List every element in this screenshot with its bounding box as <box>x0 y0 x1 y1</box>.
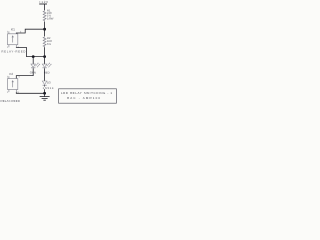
LED D2 RED triangle <box>42 64 47 67</box>
wire to ground symbol <box>44 93 46 96</box>
wire diode D3 to ground node <box>44 85 46 93</box>
wire node A to R2 <box>44 29 46 36</box>
wire node A to K1 pin4 <box>16 29 44 34</box>
relay K1 pin 1 stub <box>8 45 10 48</box>
wire node C to LED D2 <box>44 57 46 65</box>
diode D3 cathode bar <box>43 84 47 86</box>
diode D3 triangle <box>42 81 47 85</box>
relay K1 pin 3 stub <box>15 45 17 48</box>
svg-text:5%: 5% <box>47 42 52 46</box>
relay K1 box <box>8 34 18 45</box>
LED D1 cathode bar <box>31 67 35 69</box>
relay K2 box <box>8 79 18 90</box>
ground node junction dot <box>43 92 46 95</box>
LED D2 cathode bar <box>42 67 46 69</box>
relay K2 pin 1 stub <box>8 90 10 93</box>
node C junction dot (R2 bottom) <box>43 55 46 58</box>
relay K1 reed switch arm <box>12 36 14 38</box>
node B junction dot (GRN branch) <box>32 55 35 58</box>
svg-text:+12V: +12V <box>39 0 48 4</box>
wire K2 pin3 to ground node <box>16 92 44 93</box>
svg-text:K2: K2 <box>9 72 13 76</box>
svg-text:RAC - AMR100: RAC - AMR100 <box>67 96 100 100</box>
LED D1 emission arrows <box>35 63 39 67</box>
LED D1 GRN triangle <box>31 64 36 67</box>
relay K2 pin 3 stub <box>15 90 17 93</box>
diode D3 value 1N914 <box>42 87 53 90</box>
wire node B to LED D1 <box>32 57 34 65</box>
svg-text:1/8W: 1/8W <box>47 16 54 20</box>
ground symbol <box>40 96 50 98</box>
resistor R2 <box>43 36 46 47</box>
svg-text:D3: D3 <box>47 81 51 85</box>
svg-text:RELAY-REED: RELAY-REED <box>0 99 20 103</box>
power rail bar <box>39 3 47 5</box>
node A junction dot <box>43 28 46 31</box>
relay K1 pin 2 stub <box>8 31 10 33</box>
title block border <box>59 89 117 103</box>
svg-text:RELAY-REED: RELAY-REED <box>1 50 25 54</box>
resistor R1 <box>43 10 46 22</box>
wire R2 to node C <box>44 47 46 56</box>
relay K2 reed switch arm <box>12 81 14 83</box>
svg-text:1N914: 1N914 <box>43 86 54 90</box>
wire K1 pin3 to LED rail <box>16 47 44 56</box>
wire power to R1 <box>44 4 46 10</box>
LED D2 emission arrows <box>47 63 51 67</box>
relay K2 pin 2 stub <box>8 76 10 78</box>
svg-text:LED RELAY SWITCHING - 1: LED RELAY SWITCHING - 1 <box>61 91 112 95</box>
wire R1 to node A <box>44 22 46 30</box>
wire LED D2 to diode D3 <box>44 68 46 81</box>
wire LED D1 to K2 pin4 <box>16 68 33 78</box>
svg-text:K1: K1 <box>11 27 15 31</box>
